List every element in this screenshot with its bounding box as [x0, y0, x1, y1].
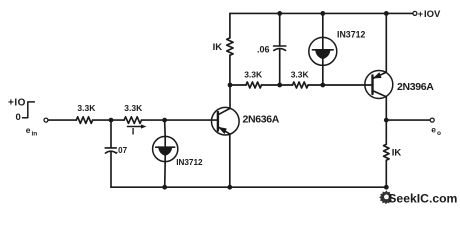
current arrow I: [127, 124, 146, 137]
svg-text:in: in: [32, 130, 38, 137]
terminal e_o: [430, 118, 441, 137]
wire Q1 emitter down to ground rail: [229, 134, 231, 187]
node A collector junction: [228, 83, 233, 88]
wire Q2 emitter up to top rail: [385, 13, 387, 72]
node junction C1: [109, 118, 114, 123]
svg-text:IN3712: IN3712: [337, 30, 365, 40]
svg-text:3.3K: 3.3K: [77, 103, 96, 113]
svg-text:3.3K: 3.3K: [124, 103, 143, 113]
terminal e_in: [26, 118, 48, 137]
wire top rail: [230, 12, 413, 14]
svg-text:IOV: IOV: [424, 9, 441, 20]
node bottom rail D1: [162, 185, 167, 190]
svg-text:2N396A: 2N396A: [397, 81, 434, 93]
svg-text:.07: .07: [116, 146, 128, 155]
capacitor C1 .07: [105, 120, 127, 187]
node output junction: [384, 118, 389, 123]
watermark SeekIC.com: [379, 190, 457, 205]
svg-text:e: e: [26, 125, 31, 135]
svg-text:e: e: [431, 125, 436, 135]
svg-text:SeekIC.com: SeekIC.com: [388, 192, 457, 206]
svg-text:I: I: [132, 127, 135, 138]
transistor Q2 2N396A: [365, 71, 434, 99]
node top rail C2: [277, 11, 282, 16]
node junction D1: [162, 118, 167, 123]
node 3.3K row D2 junction: [320, 83, 325, 88]
capacitor C2 .06: [257, 13, 286, 85]
svg-text:3.3K: 3.3K: [244, 70, 263, 80]
node bottom rail Q1 emitter: [227, 185, 232, 190]
wire node A to R5: [230, 84, 246, 86]
wire R6 to Q2 base: [308, 84, 372, 86]
resistor R2 3.3K: [124, 103, 143, 123]
svg-text:3.3K: 3.3K: [291, 70, 310, 80]
svg-text:o: o: [437, 130, 441, 137]
tunnel diode D2 1N3712: [309, 13, 366, 85]
resistor R4 1K: [384, 120, 402, 187]
svg-text:.06: .06: [257, 44, 270, 54]
node 3.3K row C2 junction: [277, 83, 282, 88]
svg-text:0: 0: [16, 112, 21, 123]
transistor Q1 2N636A: [212, 107, 280, 135]
resistor R3 1K: [213, 13, 233, 85]
wire Q1 collector up to node A: [229, 85, 231, 108]
wire bottom rail: [111, 186, 386, 188]
svg-text:IK: IK: [392, 148, 402, 159]
wire R5 to R6: [262, 84, 293, 86]
svg-text:+IO: +IO: [8, 98, 26, 109]
wire R2 to Q1 base: [142, 119, 218, 121]
resistor R5 3.3K: [244, 70, 263, 88]
wire Q2 collector down to output node: [385, 97, 387, 120]
node top rail D2: [320, 11, 325, 16]
wire input to R1: [48, 119, 76, 121]
svg-text:IK: IK: [213, 42, 223, 53]
node top rail Q2 emitter: [384, 11, 389, 16]
input step waveform: [8, 98, 34, 124]
resistor R6 3.3K: [291, 70, 310, 88]
node bottom rail R4: [384, 185, 389, 190]
svg-text:IN3712: IN3712: [176, 158, 203, 167]
resistor R1 3.3K: [76, 103, 96, 123]
svg-text:2N636A: 2N636A: [243, 113, 280, 125]
wire output node to terminal: [386, 119, 430, 121]
wire R1 to R2: [93, 119, 125, 121]
tunnel diode D1 1N3712: [153, 120, 203, 187]
terminal +10V: [413, 9, 441, 20]
svg-text:+: +: [418, 9, 423, 19]
